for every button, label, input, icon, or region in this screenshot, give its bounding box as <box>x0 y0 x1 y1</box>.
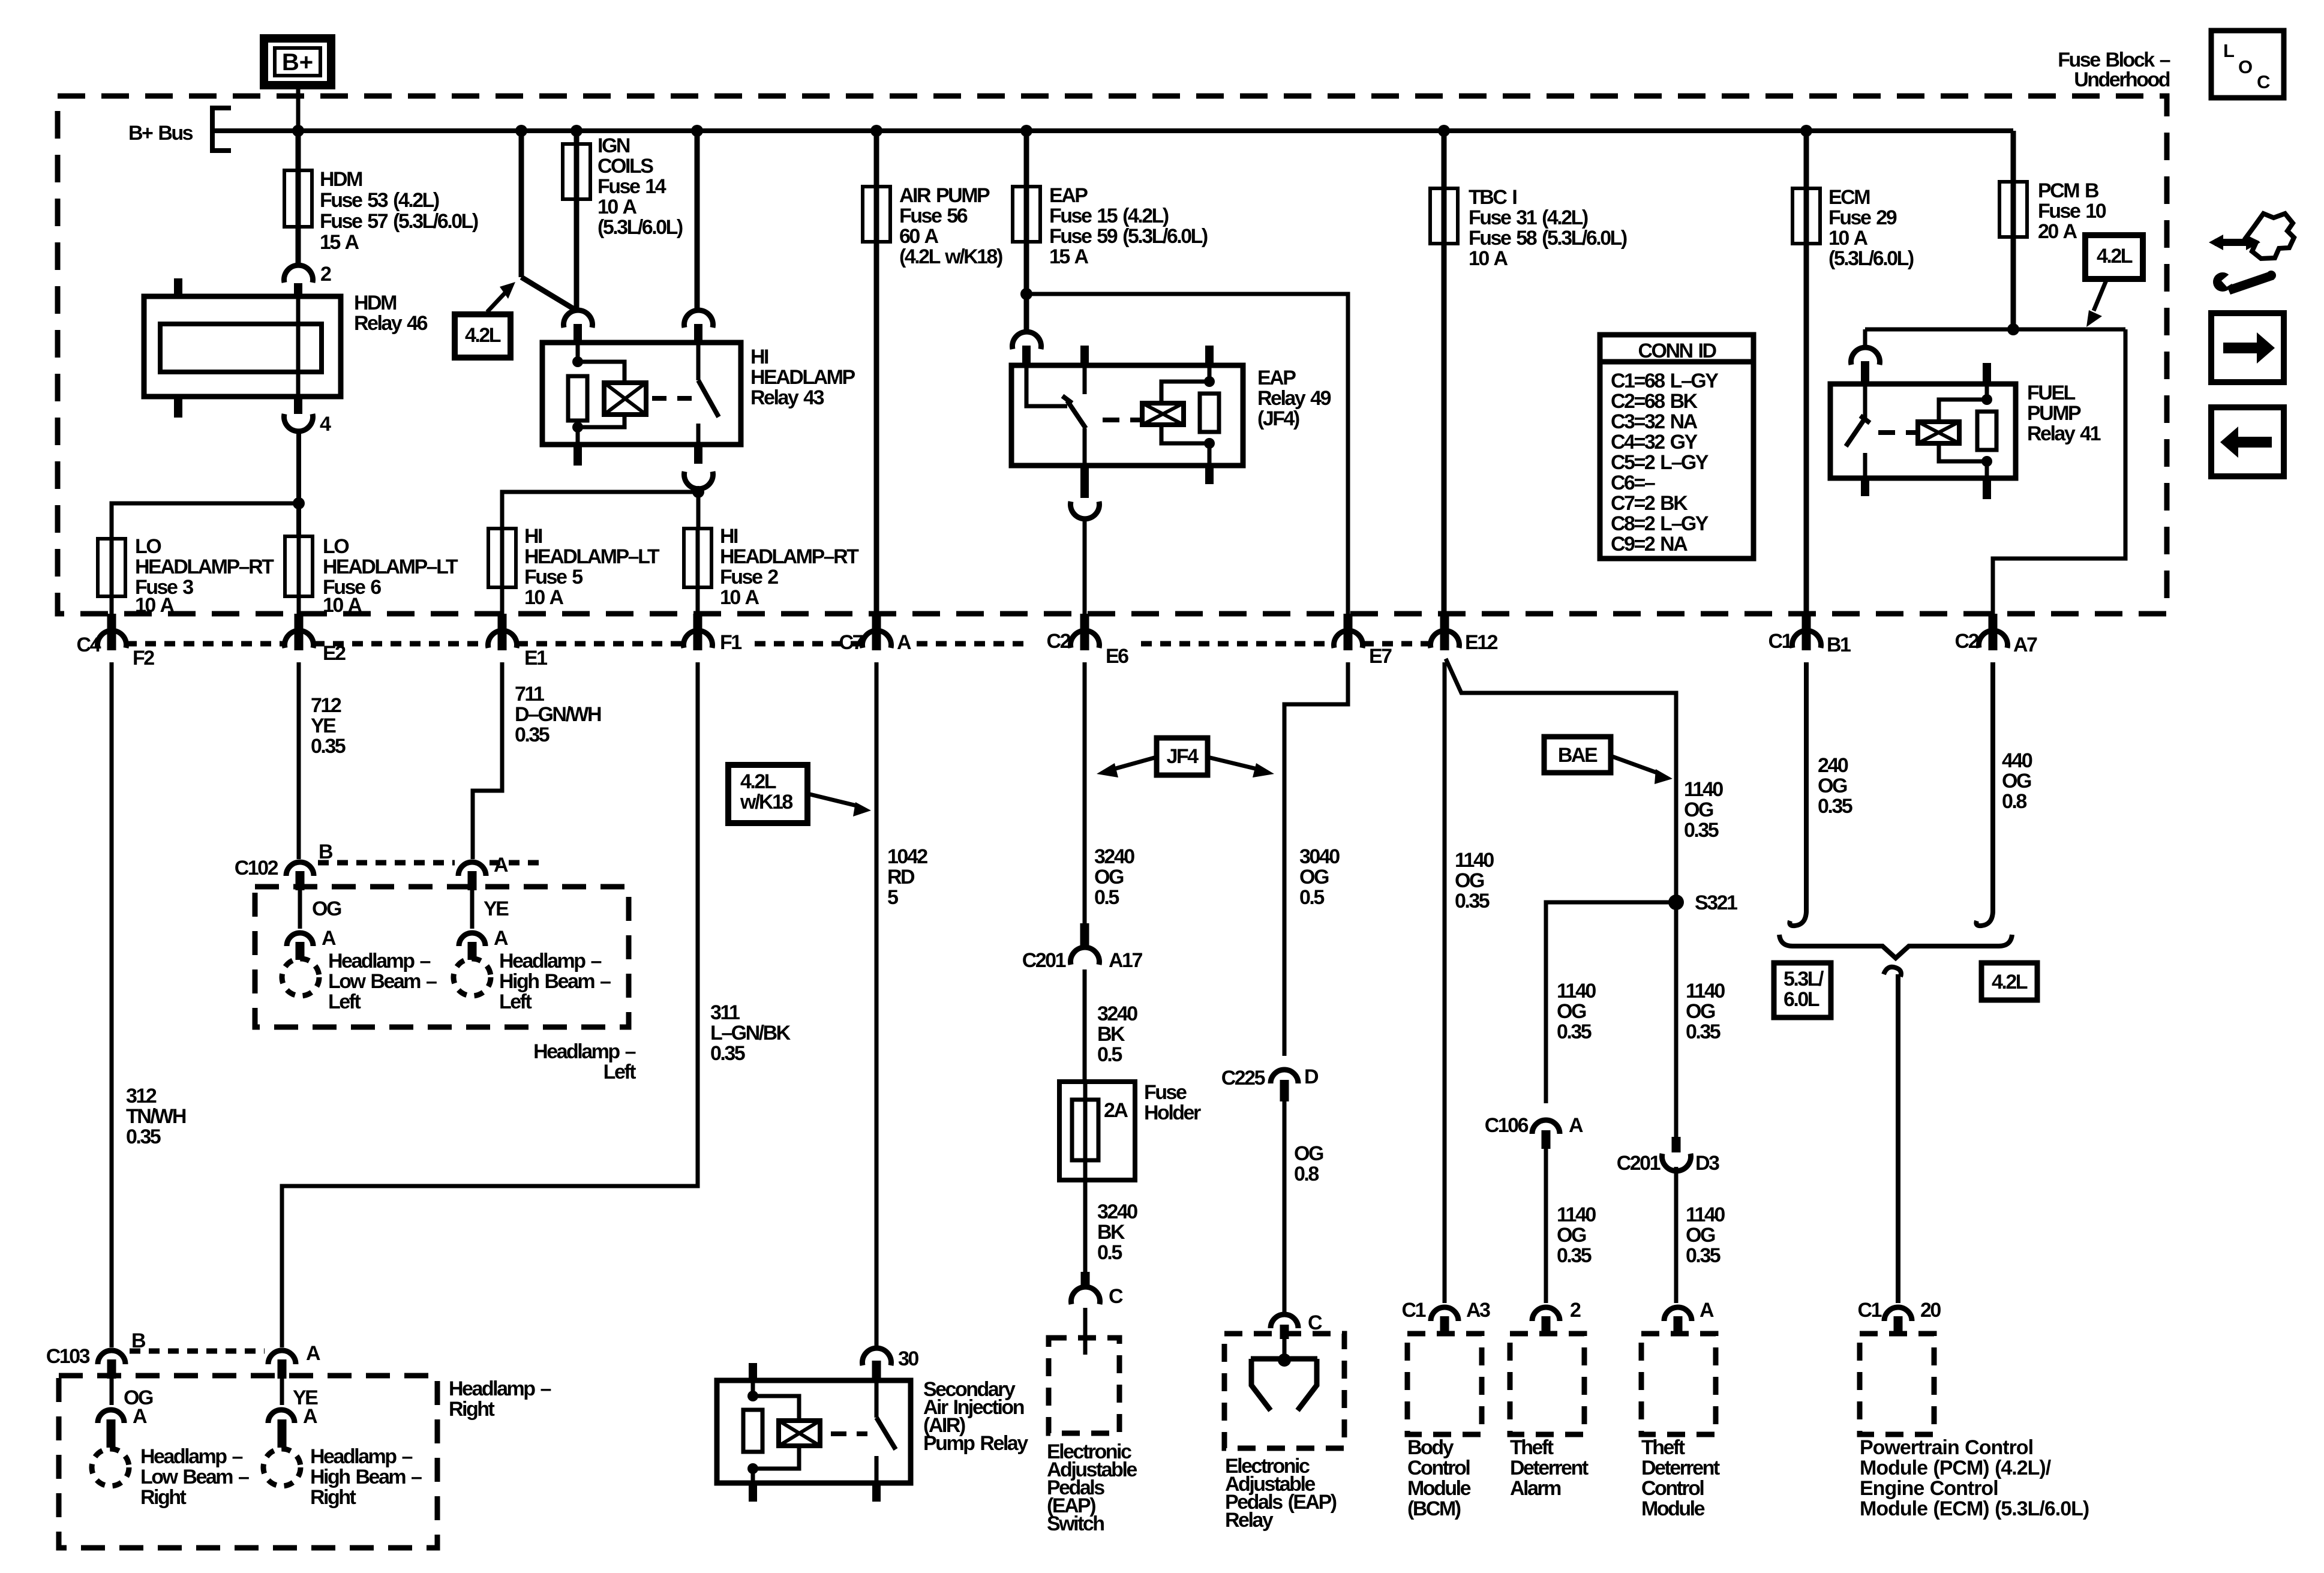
headlamp right dashed box <box>59 1376 437 1548</box>
svg-text:Powertrain Control: Powertrain Control <box>1860 1436 2033 1459</box>
svg-text:C: C <box>1109 1285 1123 1308</box>
svg-text:0.8: 0.8 <box>2002 790 2026 813</box>
svg-text:10 A: 10 A <box>135 594 175 617</box>
label BAE box with arrow <box>1544 737 1611 773</box>
svg-text:A17: A17 <box>1109 949 1142 972</box>
svg-text:Theft: Theft <box>1641 1436 1685 1459</box>
component EAP relay dashed box <box>1224 1334 1344 1448</box>
svg-text:(5.3L/6.0L): (5.3L/6.0L) <box>1828 247 1914 270</box>
wire E12 branch to BAE wire <box>1446 659 1676 902</box>
module theft deterrent alarm dashed box <box>1510 1334 1584 1434</box>
svg-text:A: A <box>494 927 508 950</box>
wire relay 41 bypass to A7 <box>1993 329 2125 614</box>
svg-text:Headlamp –: Headlamp – <box>140 1445 242 1468</box>
svg-text:C: C <box>1308 1311 1322 1334</box>
svg-text:Headlamp –: Headlamp – <box>328 950 430 972</box>
svg-text:C4: C4 <box>77 634 101 656</box>
svg-text:4.2L: 4.2L <box>740 770 776 793</box>
wire brace to PCM <box>1896 974 1900 1303</box>
module PCM dashed box <box>1860 1334 1934 1434</box>
svg-text:(5.3L/6.0L): (5.3L/6.0L) <box>597 216 683 239</box>
svg-text:0.8: 0.8 <box>1294 1163 1319 1185</box>
lamp headlamp low beam right <box>92 1449 129 1486</box>
svg-text:Fuse 59 (5.3L/6.0L): Fuse 59 (5.3L/6.0L) <box>1049 225 1208 248</box>
svg-text:OG: OG <box>1818 775 1847 797</box>
svg-text:5: 5 <box>887 886 898 909</box>
svg-text:B1: B1 <box>1827 634 1851 656</box>
svg-text:PCM B: PCM B <box>2038 179 2099 202</box>
wire S321 down to C201 D3 <box>1674 902 1679 1137</box>
EAP relay internal contact symbol <box>1283 1339 1287 1360</box>
svg-text:3240: 3240 <box>1094 845 1134 868</box>
svg-text:10 A: 10 A <box>1469 247 1508 270</box>
fuse IGN COILS Fuse 14 <box>574 131 580 310</box>
svg-text:0.5: 0.5 <box>1097 1043 1122 1066</box>
svg-text:10 A: 10 A <box>720 586 759 609</box>
svg-text:OG: OG <box>1455 869 1484 892</box>
relay 49 output arc <box>1071 502 1100 519</box>
CONN ID table <box>1600 335 1753 559</box>
wire OG to low beam right <box>110 1379 114 1405</box>
svg-text:D3: D3 <box>1695 1152 1719 1175</box>
relay 41 coil loop <box>1939 400 1987 422</box>
svg-text:2: 2 <box>1570 1299 1581 1322</box>
svg-text:Fuse 31 (4.2L): Fuse 31 (4.2L) <box>1469 206 1588 229</box>
pin 2 connector arc of HDM relay <box>284 265 313 283</box>
relay 43 coil input arc <box>564 310 593 328</box>
junction S321 <box>1668 894 1684 910</box>
svg-text:D–GN/WH: D–GN/WH <box>515 703 601 726</box>
svg-text:F1: F1 <box>720 631 741 654</box>
svg-text:IGN: IGN <box>597 134 630 157</box>
wire YE to high beam left <box>470 890 475 929</box>
svg-text:A: A <box>494 854 508 876</box>
wire end hook A7 <box>1976 903 1993 926</box>
svg-text:C201: C201 <box>1022 949 1066 972</box>
fuse block dashed border <box>58 96 2167 614</box>
relay 43 internal dashes <box>652 396 666 401</box>
svg-text:Underhood: Underhood <box>2074 68 2170 91</box>
svg-text:Left: Left <box>499 990 532 1013</box>
svg-text:Right: Right <box>449 1398 495 1421</box>
connector C201 A17 <box>1080 923 1089 946</box>
svg-text:YE: YE <box>311 715 336 737</box>
connector C1 A3 to BCM <box>1431 1307 1458 1321</box>
svg-text:312: 312 <box>126 1085 157 1107</box>
relay 49 internal dashes <box>1103 418 1119 422</box>
wire 3240 BK 0.5 to fuse holder <box>1083 969 1087 1082</box>
connector E7 <box>1344 614 1353 650</box>
wire OG 0.8 to EAP relay <box>1283 1101 1287 1315</box>
svg-text:1140: 1140 <box>1686 1203 1725 1226</box>
svg-text:Fuse 29: Fuse 29 <box>1828 206 1897 229</box>
svg-text:Fuse: Fuse <box>1144 1081 1187 1104</box>
svg-text:0.5: 0.5 <box>1097 1241 1122 1264</box>
junction dots on bus <box>292 125 1812 137</box>
relay 41 internal dashes <box>1878 430 1895 435</box>
lamp headlamp high beam right <box>263 1449 301 1486</box>
svg-text:Switch: Switch <box>1047 1512 1104 1535</box>
connector F1 <box>693 614 702 650</box>
svg-text:EAP: EAP <box>1049 184 1088 207</box>
fuse AIR PUMP Fuse 56 <box>874 131 879 614</box>
svg-text:C1: C1 <box>1858 1299 1882 1322</box>
svg-text:C5=2 L–GY: C5=2 L–GY <box>1611 451 1709 474</box>
relay FUEL PUMP Relay 41 <box>2007 323 2019 335</box>
svg-text:0.35: 0.35 <box>126 1125 161 1148</box>
svg-text:C2: C2 <box>1955 630 1979 653</box>
svg-text:C2=68 BK: C2=68 BK <box>1611 390 1698 413</box>
wire YE to high beam right <box>280 1379 284 1405</box>
wire OG to low beam left <box>298 890 302 929</box>
junction dot EAP branch <box>1020 288 1032 300</box>
svg-text:Relay 41: Relay 41 <box>2027 422 2101 445</box>
svg-text:Headlamp –: Headlamp – <box>449 1377 551 1400</box>
svg-text:4.2L: 4.2L <box>465 324 501 347</box>
svg-text:1140: 1140 <box>1684 778 1723 801</box>
wire PCM B to relay 41 <box>1865 328 2125 332</box>
label 4.2L w/K18 box <box>728 765 807 823</box>
svg-text:1140: 1140 <box>1557 980 1596 1002</box>
svg-text:HEADLAMP–LT: HEADLAMP–LT <box>524 545 660 568</box>
svg-text:HI: HI <box>750 346 768 368</box>
svg-text:Fuse 53 (4.2L): Fuse 53 (4.2L) <box>320 189 439 212</box>
label 4.2L box near relay 43 <box>455 314 511 358</box>
svg-text:C4=32 GY: C4=32 GY <box>1611 431 1698 454</box>
wire C106 to alarm <box>1544 1149 1548 1303</box>
svg-text:High Beam –: High Beam – <box>310 1466 422 1488</box>
svg-text:2: 2 <box>320 263 331 286</box>
svg-text:A: A <box>1700 1299 1714 1322</box>
svg-text:Body: Body <box>1407 1436 1454 1459</box>
svg-text:1140: 1140 <box>1686 980 1725 1002</box>
svg-text:A: A <box>897 631 911 654</box>
svg-text:10 A: 10 A <box>524 586 564 609</box>
wire HDM relay output <box>296 430 301 536</box>
svg-text:E12: E12 <box>1465 631 1498 654</box>
wire 3240 OG 0.5 from E6 <box>1083 662 1087 923</box>
svg-text:HEADLAMP: HEADLAMP <box>750 366 855 389</box>
svg-text:20: 20 <box>1920 1299 1941 1322</box>
wire branch to Fuse 5 <box>502 492 698 529</box>
svg-text:TN/WH: TN/WH <box>126 1105 186 1128</box>
label 5.3L/6.0L box <box>1774 963 1831 1017</box>
svg-text:OG: OG <box>312 897 341 920</box>
relay 41 switch <box>1863 384 1867 418</box>
module BCM dashed box <box>1407 1334 1482 1434</box>
svg-text:CONN ID: CONN ID <box>1638 340 1716 362</box>
svg-text:C9=2 NA: C9=2 NA <box>1611 533 1688 556</box>
svg-text:BAE: BAE <box>1558 744 1598 767</box>
svg-text:Fuse 58 (5.3L/6.0L): Fuse 58 (5.3L/6.0L) <box>1469 227 1627 250</box>
svg-text:C8=2 L–GY: C8=2 L–GY <box>1611 512 1709 535</box>
svg-text:EAP: EAP <box>1257 367 1296 389</box>
svg-text:440: 440 <box>2002 749 2032 772</box>
svg-text:LO: LO <box>323 535 349 558</box>
svg-text:LO: LO <box>135 535 161 558</box>
wire 711 D-GN/WH 0.35 from E1 <box>473 662 502 859</box>
svg-text:OG: OG <box>1557 1224 1586 1247</box>
wire 3240 BK 0.5 below fuse holder <box>1083 1180 1088 1272</box>
fuse HI HEADLAMP-RT Fuse 2 <box>696 529 700 614</box>
svg-text:OG: OG <box>1094 866 1124 888</box>
svg-text:Module: Module <box>1407 1477 1471 1500</box>
svg-text:0.35: 0.35 <box>1818 795 1852 818</box>
svg-text:E1: E1 <box>524 647 547 670</box>
svg-text:OG: OG <box>2002 770 2031 792</box>
legend box arrow left <box>2211 407 2284 476</box>
svg-text:HEADLAMP–RT: HEADLAMP–RT <box>135 556 274 578</box>
svg-text:C3=32 NA: C3=32 NA <box>1611 410 1698 433</box>
svg-text:JF4: JF4 <box>1166 745 1199 768</box>
svg-text:311: 311 <box>710 1001 740 1024</box>
svg-text:C1=68 L–GY: C1=68 L–GY <box>1611 370 1719 392</box>
svg-text:3240: 3240 <box>1097 1200 1137 1223</box>
lamp headlamp low beam left <box>282 959 319 996</box>
svg-text:ECM: ECM <box>1828 186 1870 209</box>
connector E1 <box>498 614 507 650</box>
svg-text:1140: 1140 <box>1557 1203 1596 1226</box>
svg-text:(4.2L w/K18): (4.2L w/K18) <box>899 245 1002 268</box>
svg-text:OG: OG <box>1686 1000 1715 1023</box>
svg-text:Fuse 57 (5.3L/6.0L): Fuse 57 (5.3L/6.0L) <box>320 210 478 233</box>
connector C106 A <box>1532 1120 1560 1134</box>
wire E12 to BCM <box>1443 662 1447 1303</box>
svg-text:HI: HI <box>524 525 542 548</box>
svg-text:C7=2 BK: C7=2 BK <box>1611 492 1688 515</box>
svg-text:10 A: 10 A <box>323 594 362 617</box>
svg-text:10 A: 10 A <box>597 196 637 218</box>
relay 49 switch blade <box>1067 401 1086 428</box>
B+ power symbol <box>264 38 331 85</box>
brace joining B1 and A7 feeds <box>1779 935 2012 958</box>
svg-text:YE: YE <box>484 897 509 920</box>
connector C201 D3 <box>1662 1154 1691 1171</box>
connector C7 A <box>872 614 881 650</box>
svg-text:60 A: 60 A <box>899 225 939 248</box>
relay 43 switch input arc <box>684 310 713 328</box>
svg-text:Alarm: Alarm <box>1510 1477 1561 1500</box>
svg-text:1042: 1042 <box>887 845 927 868</box>
svg-text:BK: BK <box>1097 1221 1125 1244</box>
svg-text:Control: Control <box>1407 1457 1470 1479</box>
svg-text:E7: E7 <box>1369 645 1392 668</box>
fuse EAP Fuse 15/59 <box>1024 131 1029 331</box>
svg-text:O: O <box>2238 56 2253 77</box>
svg-text:Fuse 5: Fuse 5 <box>524 566 582 589</box>
svg-text:Relay 46: Relay 46 <box>354 312 428 335</box>
svg-text:0.35: 0.35 <box>1684 819 1719 842</box>
svg-text:C103: C103 <box>46 1345 90 1368</box>
relay HDM Relay 46 <box>144 296 341 397</box>
svg-text:Fuse 56: Fuse 56 <box>899 205 968 227</box>
relay 49 switch fixed contacts <box>1080 346 1089 365</box>
engine and wrench icon <box>2209 214 2294 295</box>
svg-text:Left: Left <box>328 990 361 1013</box>
fuse PCM B Fuse 10 <box>2011 131 2016 329</box>
wire S321 branch to theft deterrent alarm <box>1546 902 1676 1103</box>
connector C1 B1 <box>1802 614 1811 650</box>
svg-text:4.2L: 4.2L <box>2097 245 2133 268</box>
wire relay 49 output to E6 <box>1083 520 1087 614</box>
connector C4 F2 <box>107 614 116 650</box>
svg-text:OG: OG <box>1299 866 1329 888</box>
svg-text:Right: Right <box>310 1486 356 1509</box>
svg-text:Engine Control: Engine Control <box>1860 1477 1998 1500</box>
svg-text:F2: F2 <box>133 647 154 670</box>
fuse 2A inside holder <box>1072 1100 1098 1160</box>
svg-text:HDM: HDM <box>320 168 362 191</box>
svg-text:L: L <box>2223 40 2235 61</box>
svg-text:0.35: 0.35 <box>710 1042 745 1065</box>
svg-text:HEADLAMP–RT: HEADLAMP–RT <box>720 545 859 568</box>
svg-text:C7: C7 <box>839 631 863 654</box>
svg-text:D: D <box>1304 1065 1319 1088</box>
wire 312 TN/WH 0.35 from C4 F2 <box>110 662 114 1347</box>
svg-text:5.3L/: 5.3L/ <box>1783 968 1824 990</box>
svg-text:AIR PUMP: AIR PUMP <box>899 184 990 207</box>
connector C2 A7 <box>1989 614 1998 650</box>
svg-text:Headlamp –: Headlamp – <box>499 950 601 972</box>
svg-text:PUMP: PUMP <box>2027 402 2081 425</box>
svg-text:C225: C225 <box>1221 1067 1265 1089</box>
relay 49 solenoid <box>1142 403 1184 425</box>
connector A to theft deterrent control module <box>1664 1307 1692 1321</box>
connector C to EAP switch <box>1081 1272 1090 1286</box>
component EAP switch dashed box <box>1049 1338 1119 1433</box>
svg-text:0.35: 0.35 <box>1557 1020 1592 1043</box>
wire bus drop to HI headlamp relay switch <box>695 131 700 308</box>
LOC legend box <box>2211 31 2284 98</box>
svg-text:Relay: Relay <box>1225 1509 1274 1532</box>
svg-text:Deterrent: Deterrent <box>1641 1457 1720 1479</box>
svg-text:FUEL: FUEL <box>2027 382 2076 404</box>
svg-text:C1: C1 <box>1768 630 1792 653</box>
svg-text:Fuse 14: Fuse 14 <box>597 175 666 198</box>
svg-text:0.35: 0.35 <box>1455 890 1490 912</box>
connector E12 <box>1440 614 1449 650</box>
relay 43 coil branch <box>576 343 580 362</box>
relay 41 coil input arc <box>1851 347 1880 365</box>
svg-text:15 A: 15 A <box>320 231 359 254</box>
svg-text:C2: C2 <box>1047 630 1071 653</box>
svg-text:Fuse 10: Fuse 10 <box>2038 200 2106 223</box>
svg-text:HDM: HDM <box>354 292 397 314</box>
svg-text:2A: 2A <box>1104 1099 1128 1122</box>
svg-text:6.0L: 6.0L <box>1783 988 1819 1011</box>
svg-text:C6=–: C6=– <box>1611 472 1655 494</box>
wire 240 OG 0.35 from C1 B1 <box>1804 662 1809 905</box>
legend box arrow right <box>2211 313 2284 382</box>
fuse HDM Fuse 53/57 <box>296 131 301 265</box>
svg-text:15 A: 15 A <box>1049 245 1089 268</box>
headlamp left dashed box <box>255 887 629 1027</box>
svg-text:Module: Module <box>1641 1497 1705 1520</box>
svg-text:0.35: 0.35 <box>1557 1244 1592 1267</box>
svg-text:Headlamp –: Headlamp – <box>533 1040 635 1063</box>
svg-text:Module (ECM) (5.3L/6.0L): Module (ECM) (5.3L/6.0L) <box>1860 1497 2089 1520</box>
svg-text:711: 711 <box>515 683 544 706</box>
svg-text:Holder: Holder <box>1144 1101 1201 1124</box>
wire EAP fuse to E7 <box>1026 294 1348 614</box>
wire relay 43 output <box>696 488 701 529</box>
svg-text:4.2L: 4.2L <box>1992 971 2028 993</box>
svg-text:10 A: 10 A <box>1828 227 1868 250</box>
svg-text:S321: S321 <box>1695 891 1737 914</box>
label JF4 box with arrows <box>1157 738 1208 775</box>
svg-text:Control: Control <box>1641 1477 1704 1500</box>
relay HI HEADLAMP Relay 43 <box>542 343 741 445</box>
svg-text:C201: C201 <box>1617 1152 1661 1175</box>
label 4.2L box near PCM B <box>2085 235 2143 279</box>
svg-text:OG: OG <box>1294 1142 1323 1165</box>
wire 440 OG 0.8 from C2 A7 <box>1990 662 1995 905</box>
wire hook below brace <box>1884 967 1901 977</box>
svg-text:OG: OG <box>1557 1000 1586 1023</box>
relay secondary air injection pump relay <box>717 1380 911 1483</box>
wire 3040 OG 0.5 from E7 <box>1284 662 1348 1056</box>
fuse TBC I Fuse 31/58 <box>1442 131 1447 614</box>
svg-text:(BCM): (BCM) <box>1407 1497 1461 1520</box>
svg-text:Left: Left <box>603 1061 636 1083</box>
connector C102 with B and A arcs <box>286 862 314 876</box>
svg-text:Pump Relay: Pump Relay <box>923 1432 1028 1455</box>
svg-text:B+ Bus: B+ Bus <box>128 122 193 145</box>
svg-text:Low Beam –: Low Beam – <box>328 970 437 993</box>
svg-text:TBC I: TBC I <box>1469 186 1517 209</box>
svg-text:Fuse 15 (4.2L): Fuse 15 (4.2L) <box>1049 205 1169 227</box>
svg-text:C102: C102 <box>235 857 278 879</box>
connector C2 E6 <box>1080 614 1089 650</box>
node B+ Bus label and bracket <box>128 122 193 145</box>
connector 2 to theft deterrent alarm <box>1532 1307 1560 1321</box>
svg-text:E2: E2 <box>323 642 346 665</box>
svg-text:0.35: 0.35 <box>515 724 550 746</box>
svg-text:3040: 3040 <box>1299 845 1340 868</box>
svg-text:Module (PCM) (4.2L)/: Module (PCM) (4.2L)/ <box>1860 1457 2052 1479</box>
fuse HI HEADLAMP-LT Fuse 5 <box>500 529 505 614</box>
svg-text:C: C <box>2257 71 2270 92</box>
svg-text:Deterrent: Deterrent <box>1510 1457 1589 1479</box>
svg-text:w/K18: w/K18 <box>740 791 792 813</box>
fuse holder box <box>1059 1082 1135 1180</box>
svg-text:B+: B+ <box>282 49 313 76</box>
wire branch to Fuse 3 <box>112 503 299 539</box>
fuse ECM Fuse 29 <box>1804 131 1809 614</box>
relay 43 switch <box>696 343 701 380</box>
svg-text:4: 4 <box>320 413 331 436</box>
fuse LO HEADLAMP-RT Fuse 3 <box>110 539 114 614</box>
connector C1 20 to PCM <box>1884 1307 1912 1321</box>
svg-text:A3: A3 <box>1466 1299 1490 1322</box>
relay EAP Relay 49 <box>1011 365 1243 466</box>
wire 4.2L direct bus drop to HDM relay coil <box>519 131 524 277</box>
svg-text:B: B <box>131 1329 146 1352</box>
relay 41 solenoid <box>1918 422 1959 443</box>
svg-text:HI: HI <box>720 525 738 548</box>
wire 1042 RD 5 from C7 A <box>875 662 879 1347</box>
dotted connector line at fuse block bottom <box>126 641 1430 647</box>
svg-text:0.35: 0.35 <box>311 735 346 758</box>
relay 49 coil loop <box>1161 382 1209 403</box>
pin 4 connector arc of HDM relay <box>284 414 313 431</box>
svg-text:BK: BK <box>1097 1023 1125 1046</box>
lamp headlamp high beam left <box>454 959 491 996</box>
svg-text:OG: OG <box>1684 798 1713 821</box>
svg-text:(JF4): (JF4) <box>1257 407 1299 430</box>
svg-text:Right: Right <box>140 1486 187 1509</box>
label 4.2L box at brace <box>1981 963 2037 1000</box>
